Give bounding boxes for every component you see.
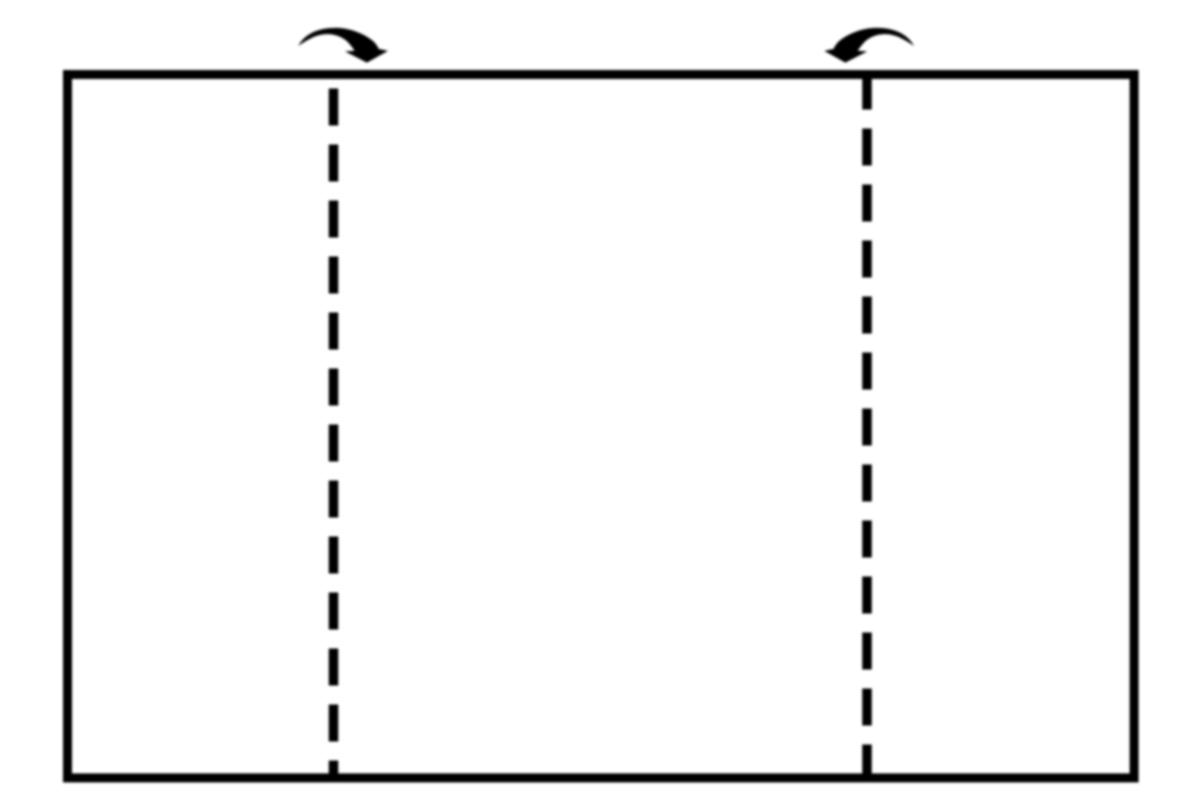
right fold arrow [824, 28, 914, 63]
left fold arrow [298, 28, 388, 63]
paper outline rectangle [68, 75, 1135, 778]
fold line (right dashed) [862, 73, 872, 779]
fold line (left dashed) [329, 89, 339, 779]
